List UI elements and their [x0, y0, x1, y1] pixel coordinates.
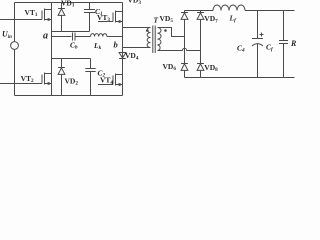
- transistor VT4: [98, 74, 123, 87]
- inductor Lf label: [229, 14, 238, 24]
- transistor VT2 label: [21, 74, 34, 84]
- transistor VT4 label: [100, 76, 113, 86]
- svg-text:Cb: Cb: [70, 41, 78, 51]
- inductor Lf: [213, 5, 245, 10]
- svg-text:Uin: Uin: [2, 30, 12, 41]
- source Uin label: [2, 30, 12, 41]
- diode VD6: [181, 64, 188, 78]
- transistor VT3 label: [97, 13, 110, 23]
- svg-text:C4: C4: [237, 44, 245, 54]
- diode VD6 label: [163, 62, 177, 72]
- diode VD8: [197, 64, 204, 78]
- svg-text:R: R: [290, 39, 297, 48]
- svg-text:VD3: VD3: [128, 0, 142, 6]
- capacitor Cf label: [266, 43, 274, 53]
- capacitor Cb label: [70, 41, 78, 51]
- diode VD1 label: [61, 0, 75, 9]
- wire node a: [52, 36, 72, 38]
- diode VD1: [58, 3, 65, 32]
- transformer T secondary winding: [158, 28, 162, 51]
- wire top rail output: [245, 10, 295, 12]
- diode VD7: [197, 11, 204, 64]
- transistor VT1 label: [25, 8, 38, 18]
- inductor Lk label: [93, 41, 102, 51]
- svg-text:VD1: VD1: [61, 0, 75, 9]
- source Uin circle: [11, 42, 19, 50]
- svg-text:VD6: VD6: [163, 62, 177, 72]
- capacitor C2: [85, 59, 95, 96]
- node b label: [114, 40, 118, 50]
- svg-text:VD7: VD7: [204, 14, 218, 24]
- diode VD4: [119, 53, 126, 59]
- svg-text:b: b: [114, 40, 118, 50]
- capacitor C1: [84, 3, 95, 32]
- svg-text:VT1: VT1: [25, 8, 38, 18]
- transformer T label: [154, 16, 159, 25]
- wire bottom rail secondary: [185, 77, 295, 79]
- wire right bridge leg: [122, 3, 124, 96]
- wire primary bottom lead from node b: [123, 47, 151, 49]
- transistor VT1: [0, 9, 52, 22]
- svg-text:VD2: VD2: [65, 76, 79, 86]
- diode VD5: [181, 11, 188, 64]
- svg-text:VD4: VD4: [125, 51, 139, 61]
- svg-text:VD8: VD8: [204, 63, 218, 73]
- wire source bottom lead: [14, 49, 16, 95]
- inductor Lk: [91, 34, 107, 37]
- wire secondary top lead: [158, 28, 185, 37]
- transformer T core: [153, 26, 155, 54]
- transistor VT2: [0, 73, 52, 86]
- wire Lk to right leg: [107, 36, 123, 38]
- capacitor C4 label: [237, 44, 245, 54]
- transformer T secondary dot: [164, 29, 167, 32]
- capacitor C output film: [279, 11, 288, 78]
- capacitor Cb: [73, 33, 91, 41]
- wire source top lead: [14, 3, 16, 42]
- diode VD7 label: [204, 14, 218, 24]
- diode VD2: [58, 59, 65, 96]
- svg-text:VT4: VT4: [100, 76, 113, 86]
- wire top rail secondary: [185, 10, 214, 12]
- svg-text:a: a: [43, 31, 48, 42]
- wire left bridge leg: [51, 3, 53, 96]
- wire bottom rail primary: [15, 95, 123, 97]
- svg-text:Lf: Lf: [229, 14, 238, 24]
- wire top rail primary: [15, 2, 123, 4]
- diode VD2 label: [65, 76, 79, 86]
- transformer T primary winding: [147, 28, 150, 48]
- svg-text:VT3: VT3: [97, 13, 110, 23]
- capacitor C1 label: [95, 7, 103, 17]
- svg-text:Lk: Lk: [93, 41, 102, 51]
- resistor R load label: [290, 39, 297, 48]
- svg-text:T: T: [154, 16, 159, 25]
- node a label: [43, 31, 48, 42]
- capacitor Cf electrolytic: [252, 11, 264, 78]
- transformer T primary dot: [146, 29, 149, 32]
- svg-text:VT2: VT2: [21, 74, 34, 84]
- wire primary top lead: [123, 27, 151, 29]
- transistor VT3: [98, 11, 123, 24]
- wire tie of VD2 C2 branches: [52, 58, 91, 60]
- diode VD3 label (clipped by image top): [128, 0, 142, 6]
- svg-text:Cf: Cf: [266, 43, 274, 53]
- diode VD4 label: [125, 51, 139, 61]
- wire secondary bottom lead with hopover: [158, 48, 201, 50]
- wire tie of VD1 C1 branches: [52, 31, 90, 33]
- diode VD5 label: [160, 14, 174, 24]
- svg-text:VD5: VD5: [160, 14, 174, 24]
- capacitor C2 label: [98, 68, 106, 78]
- diode VD8 label: [204, 63, 218, 73]
